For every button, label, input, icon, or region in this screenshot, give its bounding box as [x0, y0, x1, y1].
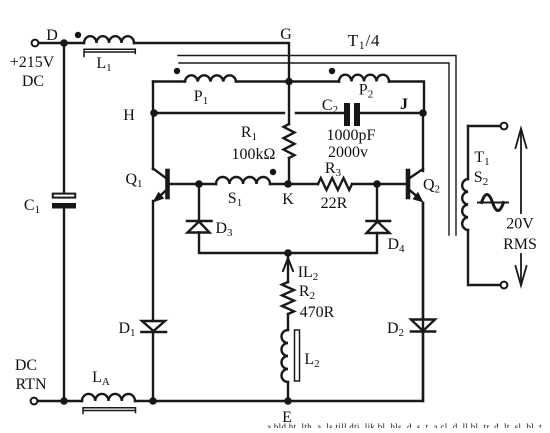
svg-text:RMS: RMS [503, 236, 537, 253]
svg-text:H: H [123, 107, 135, 124]
svg-text:D: D [46, 27, 58, 44]
svg-text:22R: 22R [321, 195, 348, 212]
svg-text:1000pF: 1000pF [327, 127, 376, 144]
svg-text:2000v: 2000v [328, 144, 368, 161]
svg-text:100kΩ: 100kΩ [232, 146, 276, 163]
svg-text:a bld ht. lth. a. ls till dti.: a bld ht. lth. a. ls till dti. lik bl. h… [267, 422, 542, 428]
svg-text:J: J [400, 96, 408, 113]
svg-text:G: G [280, 26, 292, 43]
svg-text:20V: 20V [506, 216, 534, 233]
svg-text:+215V: +215V [10, 54, 55, 71]
svg-text:470R: 470R [300, 304, 335, 321]
svg-text:RTN: RTN [15, 376, 46, 393]
svg-text:K: K [282, 191, 294, 208]
svg-text:DC: DC [15, 357, 37, 374]
svg-text:DC: DC [22, 73, 44, 90]
